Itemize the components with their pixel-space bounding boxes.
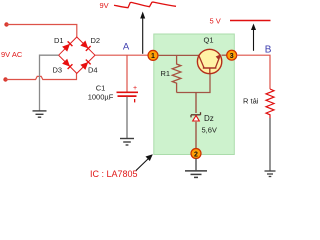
wire bridge output rail to node 1	[95, 54, 149, 56]
terminal top input	[4, 22, 8, 26]
wire node 3 to load	[237, 55, 271, 89]
svg-text:C1: C1	[96, 84, 106, 93]
svg-text:IC : LA7805: IC : LA7805	[90, 169, 138, 179]
capacitor C1	[117, 85, 139, 102]
load resistor R tai	[266, 89, 274, 118]
svg-text:Q1: Q1	[203, 36, 213, 45]
svg-text:D3: D3	[53, 66, 63, 75]
arrow to IC block	[136, 158, 150, 171]
transistor Q1	[197, 49, 221, 73]
diode D1	[62, 41, 72, 51]
wire base net (R1 to base to Dz)	[177, 74, 210, 93]
diode D2	[80, 41, 90, 51]
terminal bottom input	[3, 77, 7, 81]
IC LA7805 block	[154, 34, 235, 155]
ground (left)	[33, 111, 47, 117]
svg-text:Dz: Dz	[204, 114, 214, 123]
diode D4	[80, 59, 90, 69]
svg-text:R tải: R tải	[243, 97, 259, 106]
svg-text:D1: D1	[54, 36, 64, 45]
node 3	[227, 50, 237, 60]
arrow node B to 5V level	[253, 28, 255, 51]
5V output level line	[230, 20, 271, 22]
svg-text:D2: D2	[91, 36, 101, 45]
svg-text:D4: D4	[88, 66, 98, 75]
arrow node A to 9V waveform	[142, 17, 144, 54]
node 1	[148, 50, 158, 60]
node 2	[191, 149, 201, 159]
wire C1 branch	[126, 55, 128, 91]
waveform 9V ripple	[114, 2, 176, 8]
wire top AC input	[7, 25, 77, 38]
svg-text:5,6V: 5,6V	[202, 126, 217, 135]
bridge rectifier diamond wires	[59, 37, 95, 73]
wire C1 to ground	[126, 97, 128, 138]
wire Dz to node 2	[195, 122, 197, 149]
wire node 1 to Q1 collector	[158, 54, 199, 56]
wire node 2 to ground	[195, 158, 197, 170]
svg-text:3: 3	[230, 53, 234, 60]
svg-text:9V: 9V	[100, 1, 109, 10]
ground (right)	[265, 171, 276, 177]
wire bottom AC input (hops over gray wire)	[6, 73, 77, 80]
svg-text:2: 2	[194, 151, 198, 158]
svg-text:5 V: 5 V	[210, 17, 221, 26]
resistor R1	[172, 55, 181, 92]
svg-text:A: A	[123, 41, 130, 52]
svg-text:9V AC: 9V AC	[1, 50, 23, 59]
ground (below C1)	[120, 139, 134, 146]
svg-text:B: B	[265, 45, 272, 56]
wire Dz branch	[195, 93, 197, 114]
ground (center, below node 2)	[185, 171, 207, 178]
wire Q1 emitter to node 3	[222, 54, 228, 56]
svg-text:1000µF: 1000µF	[88, 93, 114, 102]
wire load to ground	[269, 118, 271, 171]
svg-text:R1: R1	[161, 69, 171, 78]
diode D3	[62, 59, 72, 69]
zener diode Dz	[191, 112, 201, 121]
wire bridge left vertex to ground (gray)	[40, 55, 59, 110]
svg-text:1: 1	[151, 53, 155, 60]
svg-text:+: +	[133, 85, 137, 92]
